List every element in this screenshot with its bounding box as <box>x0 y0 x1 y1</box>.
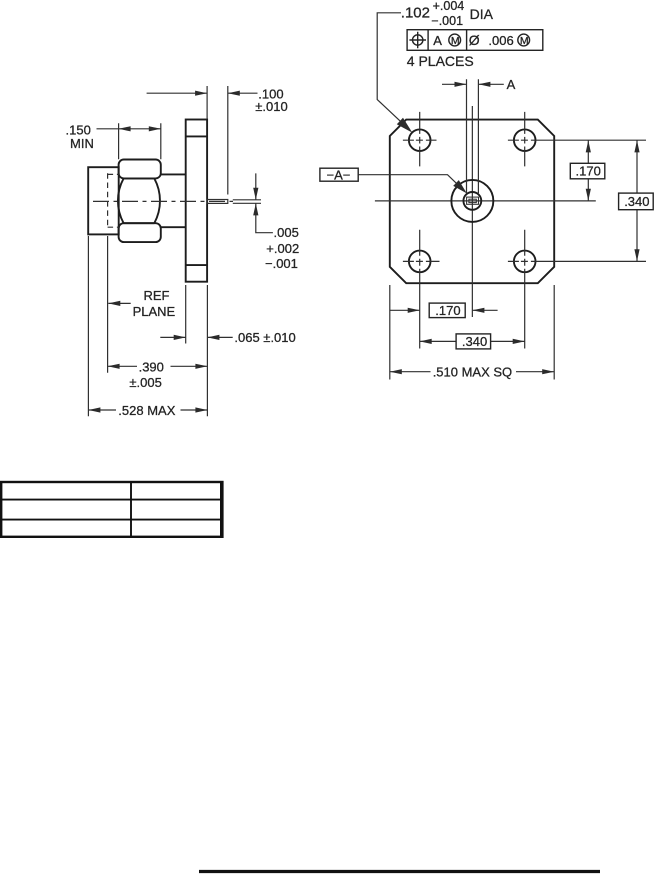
GDT M circle 2 <box>518 34 530 47</box>
mounting hole bottom-left <box>409 251 431 273</box>
dim .528 dimension line <box>88 407 207 412</box>
GDT diameter tolerance <box>469 32 514 48</box>
label .102 DIA <box>401 0 494 28</box>
center pin slot outer <box>467 197 479 204</box>
hex nut barrel face <box>118 178 160 223</box>
mounting hole top-right <box>514 129 536 151</box>
center pin slot inner <box>469 199 476 202</box>
dim .150 MIN label <box>66 122 94 151</box>
GDT feature control frame <box>407 30 543 51</box>
dim .005 label <box>265 225 299 271</box>
svg-text:±.010: ±.010 <box>255 99 287 114</box>
dim .100 label <box>255 86 287 114</box>
svg-text:M: M <box>451 35 460 47</box>
svg-text:A: A <box>507 77 516 92</box>
svg-text:A: A <box>433 33 442 48</box>
dim .150 MIN dimension line <box>97 126 161 131</box>
svg-text:±.005: ±.005 <box>129 375 161 390</box>
dim .005 arrows <box>253 173 273 232</box>
dim .340 right dimension line <box>634 140 639 261</box>
svg-text:.006: .006 <box>488 33 513 48</box>
revision table <box>1 481 222 538</box>
hole bottom-left crosshair <box>403 230 440 349</box>
leader .102 DIA <box>377 13 412 133</box>
svg-text:.340: .340 <box>624 194 649 209</box>
mounting hole top-left <box>409 129 431 151</box>
dim .170 right dimension line <box>586 140 591 201</box>
LEFT-VIEW <box>66 86 300 418</box>
dim .390 label <box>129 360 164 390</box>
svg-text:−A−: −A− <box>327 167 351 182</box>
svg-text:.005: .005 <box>274 225 299 240</box>
svg-text:.065 ±.010: .065 ±.010 <box>234 330 295 345</box>
dim .150 MIN extension lines <box>119 123 161 159</box>
dim .170 right label <box>570 163 605 179</box>
centerline axis <box>93 200 233 202</box>
flange vertical centerline <box>471 106 473 317</box>
flange chamfer lines <box>186 136 207 265</box>
svg-text:4 PLACES: 4 PLACES <box>407 53 474 69</box>
svg-text:.170: .170 <box>435 303 460 318</box>
dim .065 label <box>234 330 295 345</box>
dim .390 extension lines <box>108 236 208 416</box>
dim .510 extension lines <box>390 285 554 380</box>
pin edge extension lines <box>233 200 261 204</box>
GDT datum A <box>433 33 442 48</box>
hole top-left crosshair <box>403 112 437 166</box>
svg-text:+.002: +.002 <box>266 241 299 256</box>
REF PLANE label <box>133 288 176 319</box>
svg-text:.390: .390 <box>139 360 164 375</box>
datum A flag <box>320 167 358 182</box>
center conductor inner circle <box>463 192 481 210</box>
hex nut bottom flat <box>119 223 161 242</box>
dim .340 right label <box>619 193 654 210</box>
hex nut top flat <box>119 160 161 179</box>
GDT position symbol <box>409 32 426 49</box>
hole top-right crosshair <box>508 112 646 166</box>
dim .340 bottom label <box>456 334 491 349</box>
svg-text:.170: .170 <box>576 164 601 179</box>
dim .100 extension lines <box>207 86 228 195</box>
footer rule <box>199 870 600 873</box>
REF PLANE leader <box>108 301 130 306</box>
datum A leader <box>358 175 467 194</box>
dim .510 label <box>433 365 512 380</box>
svg-text:Ø: Ø <box>469 32 480 48</box>
connector body rear cylinder <box>88 167 119 234</box>
cylinder between hex and flange <box>161 174 186 227</box>
svg-text:MIN: MIN <box>70 136 94 151</box>
svg-text:+.004: +.004 <box>433 0 465 13</box>
dim A arrows <box>442 82 504 87</box>
hole bottom-right crosshair <box>508 230 646 349</box>
svg-text:.340: .340 <box>462 334 487 349</box>
svg-text:M: M <box>520 35 529 47</box>
dim .510 dimension line <box>390 369 554 374</box>
dim .065 arrows <box>160 335 232 340</box>
svg-text:DIA: DIA <box>470 6 494 22</box>
dim A extension lines <box>467 79 479 193</box>
center contact pin <box>207 200 228 204</box>
dim A label <box>507 77 516 92</box>
dim .390 dimension line <box>108 364 208 369</box>
svg-text:.528 MAX: .528 MAX <box>118 403 175 418</box>
label 4 PLACES <box>407 53 474 69</box>
flange side view <box>186 120 207 282</box>
svg-text:REF: REF <box>144 288 170 303</box>
svg-text:.102: .102 <box>401 5 430 22</box>
mounting hole bottom-right <box>514 251 536 273</box>
dim .170 bottom label <box>429 303 465 318</box>
RIGHT-VIEW <box>320 0 653 380</box>
center conductor outer circle <box>451 180 493 222</box>
svg-text:.510 MAX SQ: .510 MAX SQ <box>433 365 512 380</box>
dim .528 extension line <box>87 236 89 416</box>
dim .065 extension line <box>185 285 187 344</box>
flange face outline octagon <box>390 120 554 284</box>
flange horizontal centerline <box>375 200 596 202</box>
svg-text:PLANE: PLANE <box>133 304 176 319</box>
svg-text:−.001: −.001 <box>431 14 463 28</box>
dim .528 label <box>118 403 175 418</box>
dim .100 arrows <box>147 91 258 96</box>
dim .170 bottom arrows <box>390 308 498 313</box>
hidden thread lines (dashed) <box>108 173 119 228</box>
svg-text:−.001: −.001 <box>265 256 298 271</box>
dim .340 bottom dimension line <box>420 339 525 344</box>
GDT M circle 1 <box>449 34 461 47</box>
